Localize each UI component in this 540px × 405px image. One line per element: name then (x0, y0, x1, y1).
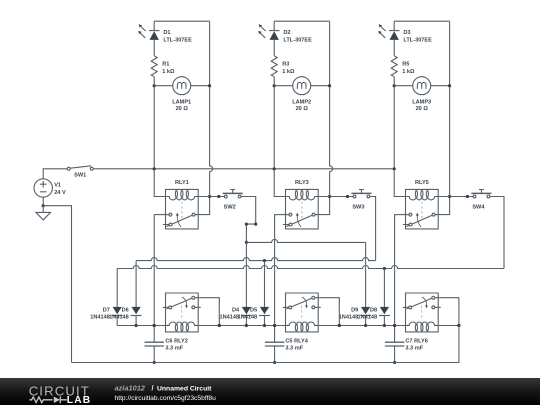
footer url (115, 395, 217, 402)
wire left vertical to coil (274, 77, 285, 197)
wire SW4 out (490, 197, 504, 269)
svg-text:3.3 mF: 3.3 mF (165, 346, 183, 352)
wire RLY6 contact to coil junction (435, 298, 459, 326)
svg-text:D9: D9 (351, 307, 358, 313)
switch SW1 (67, 166, 93, 179)
pushbutton SW3 (351, 190, 371, 211)
junction (42, 204, 45, 207)
svg-text:C7 RLY6: C7 RLY6 (405, 338, 428, 344)
wire (42, 197, 44, 206)
wire (116, 316, 118, 326)
svg-text:D6: D6 (122, 307, 129, 313)
wire (264, 316, 266, 326)
LED D2 (258, 24, 312, 43)
junction (263, 324, 266, 327)
junction (218, 324, 221, 327)
junction (457, 324, 460, 327)
wire V1- to ground bus (43, 206, 71, 363)
wire left vertical to coil (154, 77, 165, 197)
wire left vertical to coil (394, 77, 405, 197)
svg-text:R3: R3 (282, 61, 289, 67)
diode D4 (219, 307, 251, 321)
junction (153, 167, 156, 170)
wire right vertical (435, 21, 450, 214)
relay RLY2 (163, 293, 201, 332)
diode D7 (90, 307, 122, 321)
LED D1 (138, 24, 192, 43)
junction (273, 324, 276, 327)
wire right vertical (195, 21, 213, 214)
wire top (394, 20, 449, 22)
wire cathode bus 2 (198, 325, 285, 327)
svg-text:C5 RLY4: C5 RLY4 (285, 338, 308, 344)
wire top (274, 20, 329, 22)
pushbutton SW4 (471, 190, 491, 211)
relay RLY6 (403, 293, 441, 332)
wire RLY4 contact to coil junction (315, 298, 340, 326)
junction (218, 324, 221, 327)
junction (383, 324, 386, 327)
junction (448, 84, 451, 87)
svg-text:LTL-307EE: LTL-307EE (403, 38, 432, 44)
wire (273, 21, 275, 56)
junction (393, 324, 396, 327)
junction (217, 195, 220, 198)
CircuitLab logo (0, 378, 540, 405)
svg-text:20 Ω: 20 Ω (176, 106, 189, 112)
wire (393, 21, 395, 56)
wire SW1 rail (93, 168, 394, 170)
svg-text:Unnamed Circuit: Unnamed Circuit (157, 385, 212, 392)
svg-text:1N4148: 1N4148 (238, 315, 258, 321)
wire SW3 out (370, 197, 376, 261)
svg-text:LAMP1: LAMP1 (172, 100, 191, 106)
junction (153, 361, 156, 364)
svg-text:20 Ω: 20 Ω (296, 106, 309, 112)
junction (245, 223, 248, 226)
capacitor C5 (265, 326, 309, 363)
svg-text:azia1012: azia1012 (115, 383, 146, 392)
svg-text:RLY3: RLY3 (295, 180, 309, 186)
wire coil to pushbutton (318, 196, 353, 198)
junction (263, 259, 266, 262)
junction (393, 361, 396, 364)
wire SW2 net drop to D4 (245, 242, 247, 307)
junction (245, 324, 248, 327)
svg-text:D3: D3 (403, 30, 410, 36)
svg-text:R1: R1 (162, 61, 169, 67)
wire rail B (SW3 net) (136, 258, 376, 261)
wire coil to pushbutton (438, 196, 473, 198)
pushbutton SW2 (223, 190, 243, 211)
diode D5 (238, 307, 270, 321)
footer credit line (115, 383, 213, 392)
wire top (154, 20, 209, 22)
svg-text:V1: V1 (54, 183, 61, 189)
junction (338, 324, 341, 327)
junction (153, 324, 156, 327)
svg-text:1N4148: 1N4148 (109, 315, 129, 321)
junction (457, 324, 460, 327)
svg-text:24 V: 24 V (54, 190, 66, 196)
wire RLY2 contact to coil junction (195, 298, 220, 326)
svg-text:D5: D5 (250, 307, 257, 313)
diode D8 (357, 307, 389, 321)
relay RLY3 (283, 180, 318, 229)
wire (135, 316, 137, 326)
svg-text:RLY1: RLY1 (175, 180, 189, 186)
svg-text:LAMP3: LAMP3 (412, 100, 431, 106)
ground (36, 206, 51, 220)
junction (135, 324, 138, 327)
wire (383, 316, 385, 326)
wire rail C drop to D8 (383, 269, 385, 307)
diode D6 (109, 307, 141, 321)
wire ground bus (72, 326, 459, 363)
junction (208, 195, 211, 198)
wire rail C (SW4 net) (117, 266, 504, 269)
resistor R5 (391, 56, 415, 77)
capacitor C7 (385, 326, 428, 363)
junction (393, 84, 396, 87)
svg-text:20 Ω: 20 Ω (416, 106, 429, 112)
svg-text:LAMP2: LAMP2 (292, 100, 311, 106)
diode D9 (339, 307, 371, 321)
lamp LAMP1 (172, 77, 191, 112)
wire contact drop (274, 215, 276, 326)
junction (273, 167, 276, 170)
wire contact drop (394, 215, 396, 326)
junction (328, 195, 331, 198)
junction (254, 223, 257, 226)
svg-text:LTL-307EE: LTL-307EE (163, 38, 192, 44)
junction (448, 195, 451, 198)
svg-text:http://circuitlab.com/c5gf23c5: http://circuitlab.com/c5gf23c5bff8u (115, 395, 217, 402)
svg-text:D7: D7 (103, 307, 110, 313)
wire right vertical (315, 21, 333, 214)
svg-text:R5: R5 (402, 61, 409, 67)
svg-text:D4: D4 (232, 307, 240, 313)
svg-text:D2: D2 (283, 30, 290, 36)
wire lamp row (394, 85, 449, 87)
junction (273, 84, 276, 87)
wire coil to pushbutton (198, 196, 224, 198)
junction (273, 324, 276, 327)
wire (43, 169, 67, 179)
junction (364, 324, 367, 327)
LED D3 (378, 24, 432, 43)
wire cathode bus 3 (318, 325, 405, 327)
svg-text:D1: D1 (163, 30, 170, 36)
svg-text:1 kΩ: 1 kΩ (402, 69, 415, 75)
wire contact drop (153, 215, 155, 326)
junction (153, 84, 156, 87)
voltage source V1 (34, 179, 66, 197)
wire RLY3 NO contact (274, 214, 289, 216)
resistor R1 (151, 56, 175, 77)
wire lamp row (154, 85, 209, 87)
svg-text:D8: D8 (370, 307, 377, 313)
wire rail C drop to D7 (116, 269, 118, 307)
wire SW2 out jog (241, 197, 256, 243)
svg-text:1 kΩ: 1 kΩ (162, 69, 175, 75)
svg-text:SW4: SW4 (472, 205, 485, 211)
svg-text:1N4148: 1N4148 (219, 315, 239, 321)
svg-text:LTL-307EE: LTL-307EE (283, 38, 312, 44)
svg-text:SW2: SW2 (224, 205, 236, 211)
junction (346, 195, 349, 198)
wire rail B drop to D6 (135, 261, 137, 307)
svg-text:RLY5: RLY5 (415, 180, 429, 186)
capacitor C6 (145, 326, 188, 363)
svg-text:SW3: SW3 (352, 205, 364, 211)
junction (393, 324, 396, 327)
junction (153, 324, 156, 327)
lamp LAMP2 (292, 77, 311, 112)
junction (328, 84, 331, 87)
wire RLY5 NO contact (394, 214, 409, 216)
wire rail A (SW2 net) (246, 239, 365, 242)
wire rail A drop to D9 (365, 242, 367, 307)
wire (365, 316, 367, 326)
wire rail B drop to D5 (264, 261, 266, 307)
svg-text:1N4148: 1N4148 (90, 315, 110, 321)
svg-text:SW1: SW1 (74, 172, 86, 178)
junction (273, 361, 276, 364)
junction (466, 195, 469, 198)
junction (208, 84, 211, 87)
junction (338, 324, 341, 327)
resistor R3 (271, 56, 295, 77)
relay RLY1 (163, 180, 198, 229)
junction (383, 267, 386, 270)
junction (393, 167, 396, 170)
svg-text:C6 RLY2: C6 RLY2 (165, 338, 188, 344)
svg-text:3.3 mF: 3.3 mF (285, 346, 303, 352)
svg-text:1 kΩ: 1 kΩ (282, 69, 295, 75)
wire cathode stub to bus riser (438, 325, 459, 327)
svg-text:3.3 mF: 3.3 mF (405, 346, 423, 352)
wire (245, 316, 247, 326)
relay RLY4 (283, 293, 321, 332)
lamp LAMP3 (412, 77, 431, 112)
relay RLY5 (403, 180, 438, 229)
junction (245, 241, 248, 244)
wire RLY1 NO contact (154, 214, 169, 216)
wire cathode bus 1 (117, 325, 165, 327)
svg-text:1N4148: 1N4148 (357, 315, 377, 321)
wire (153, 21, 155, 56)
svg-text:LAB: LAB (67, 395, 92, 405)
wire lamp row (274, 85, 329, 87)
svg-text:1N4148: 1N4148 (339, 315, 359, 321)
svg-text:/: / (152, 383, 154, 392)
